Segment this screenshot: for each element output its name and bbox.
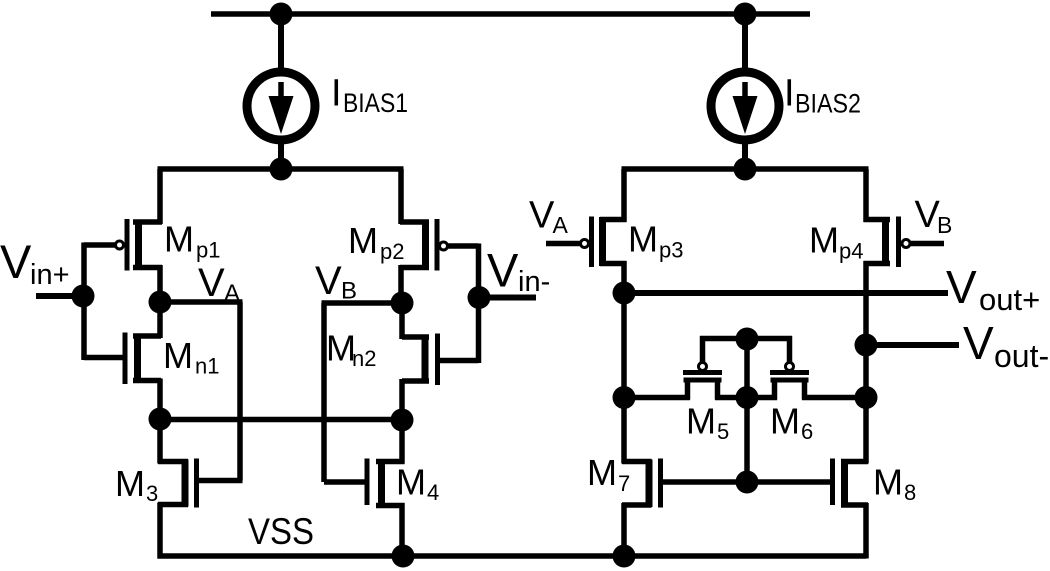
wire Mp1 source	[157, 169, 163, 224]
node row left	[613, 386, 636, 409]
svg-text:V: V	[529, 195, 555, 237]
wire Mn2 source	[399, 379, 405, 422]
wire Mn2 gate	[438, 358, 479, 364]
wire Mp4 source	[863, 169, 869, 222]
svg-text:M: M	[809, 220, 839, 261]
wire VB vertical	[321, 303, 327, 482]
transistor Mp2	[400, 219, 448, 271]
node VSS M4	[392, 545, 415, 568]
node VB	[391, 292, 414, 315]
wire Vout+	[624, 290, 948, 296]
svg-text:BIAS1: BIAS1	[343, 88, 408, 118]
svg-text:V: V	[487, 244, 519, 297]
wire row left segment	[624, 395, 690, 401]
svg-text:M: M	[396, 462, 426, 503]
node top rail left junction	[270, 3, 293, 26]
wire Mp2 source	[398, 169, 404, 224]
svg-text:M: M	[164, 219, 194, 260]
node VA	[149, 291, 172, 314]
wire Vin-	[479, 295, 536, 301]
svg-text:in-: in-	[518, 266, 550, 298]
svg-text:V: V	[963, 317, 994, 369]
transistor M8	[833, 459, 869, 508]
svg-text:n2: n2	[352, 346, 376, 371]
transistor M4	[367, 459, 405, 508]
svg-text:4: 4	[427, 480, 439, 505]
wire Vin+	[36, 293, 83, 299]
wire M5 gate drop	[700, 336, 706, 363]
wire IBIAS1 top stem	[278, 14, 284, 74]
svg-text:M: M	[163, 335, 193, 376]
svg-text:n1: n1	[195, 354, 219, 379]
svg-text:M: M	[770, 401, 800, 442]
svg-text:VSS: VSS	[248, 511, 314, 552]
transistor M3	[158, 459, 197, 508]
node M7 M8 gate	[736, 471, 759, 494]
svg-text:7: 7	[618, 471, 630, 496]
wire Mp4 drain	[863, 261, 869, 399]
wire Mp3 drain	[621, 261, 627, 295]
wire CMFB vertical	[744, 339, 750, 484]
wire IBIAS2 top stem	[742, 14, 748, 74]
wire tail cross	[160, 417, 402, 423]
svg-text:3: 3	[146, 481, 158, 506]
svg-text:V: V	[0, 235, 32, 288]
node Vin+	[72, 285, 95, 308]
wire M4 drain	[399, 418, 405, 464]
svg-text:B: B	[341, 278, 357, 305]
wire VA vertical	[237, 302, 243, 481]
wire top rail	[211, 11, 810, 17]
wire row mid segment	[715, 395, 777, 401]
wire VB horizontal	[322, 300, 403, 306]
svg-text:BIAS2: BIAS2	[795, 89, 861, 119]
current source IBIAS2	[711, 72, 779, 140]
svg-text:out-: out-	[994, 338, 1049, 374]
node VSS M7	[613, 545, 636, 568]
wire Vin+ vertical	[81, 243, 87, 361]
wire right pair top	[622, 166, 869, 172]
wire gate top	[700, 336, 792, 342]
node Mn2 source	[391, 409, 414, 432]
wire M8 source	[863, 503, 869, 559]
wire Vin- vertical	[476, 244, 482, 364]
wire Mp2 drain	[398, 265, 404, 305]
wire M3 source	[157, 503, 163, 559]
svg-text:5: 5	[717, 419, 729, 444]
node top rail right junction	[734, 3, 757, 26]
wire M6 gate drop	[787, 336, 793, 363]
wire Mn1 source	[157, 379, 163, 422]
wire M3 gate	[196, 478, 243, 484]
wire M8 drain	[863, 396, 869, 464]
svg-text:M: M	[628, 219, 658, 260]
wire left pair top	[158, 166, 404, 172]
svg-text:V: V	[946, 261, 977, 313]
node Vin-	[468, 286, 491, 309]
svg-text:A: A	[553, 212, 569, 238]
svg-text:V: V	[315, 259, 342, 303]
wire M7 M8 gate row	[663, 479, 830, 485]
node row right	[855, 386, 878, 409]
svg-text:8: 8	[904, 480, 916, 505]
svg-text:B: B	[937, 212, 952, 238]
svg-text:in+: in+	[30, 259, 70, 291]
node Mn1 source	[149, 408, 172, 431]
svg-text:p1: p1	[196, 238, 220, 263]
svg-text:A: A	[224, 280, 240, 307]
wire Vout-	[866, 342, 959, 348]
svg-text:M: M	[348, 220, 378, 261]
node row center	[736, 386, 759, 409]
node Vout-	[855, 334, 878, 357]
svg-text:M: M	[587, 452, 617, 493]
wire VA gate stub	[546, 241, 580, 247]
wire Mn1 drain	[157, 302, 163, 338]
svg-text:p3: p3	[659, 238, 683, 263]
wire M3 drain	[157, 417, 163, 464]
transistor Mn2	[402, 334, 438, 386]
wire M4 gate	[324, 479, 367, 485]
wire Mn1 gate	[84, 355, 123, 361]
transistor M7	[622, 459, 661, 508]
wire M4 source	[399, 503, 405, 559]
wire M7 drain	[621, 396, 627, 464]
wire Mn2 drain	[399, 303, 405, 339]
node below IBIAS1	[270, 158, 293, 181]
svg-text:I: I	[784, 72, 795, 114]
wire Mp2 gate	[448, 243, 479, 249]
svg-text:M: M	[115, 463, 145, 504]
transistor Mn1	[125, 333, 161, 385]
svg-text:V: V	[198, 261, 225, 305]
wire VB gate stub	[911, 241, 945, 247]
wire IBIAS1 bottom stem	[278, 139, 284, 172]
node below IBIAS2	[734, 158, 757, 181]
svg-text:out+: out+	[979, 282, 1040, 317]
wire Mp1 gate	[84, 242, 116, 248]
current source IBIAS1	[247, 72, 315, 140]
wire Mp3 source	[621, 169, 627, 222]
svg-text:M: M	[686, 401, 716, 442]
wire row right segment	[802, 395, 866, 401]
transistor M5	[683, 363, 722, 400]
transistor Mp3	[581, 217, 627, 268]
wire IBIAS2 bottom stem	[742, 139, 748, 172]
node Vout+	[613, 282, 636, 305]
svg-text:M: M	[873, 462, 903, 503]
wire VA horizontal	[160, 299, 243, 305]
svg-text:6: 6	[801, 419, 813, 444]
wire VSS rail	[158, 553, 867, 559]
wire M7 source	[621, 503, 627, 559]
transistor M6	[770, 363, 809, 400]
node M5 M6 gates	[736, 328, 759, 351]
wire Mp1 drain	[157, 265, 163, 304]
svg-text:I: I	[331, 73, 342, 115]
svg-text:p2: p2	[380, 239, 404, 264]
wire Vout+ column	[621, 291, 627, 400]
transistor Mp1	[116, 219, 163, 271]
svg-text:p4: p4	[839, 239, 863, 264]
transistor Mp4	[864, 217, 911, 268]
